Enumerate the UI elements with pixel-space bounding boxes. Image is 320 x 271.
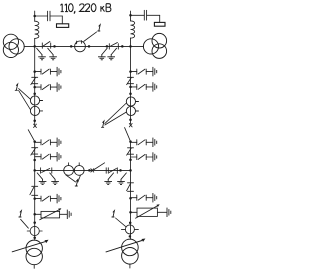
wire right vertical lower: [130, 141, 132, 239]
leader to label 1 (breaker): [84, 32, 97, 42]
three-winding transformer right (trefoil): [143, 33, 166, 58]
open point X right column: [129, 124, 132, 127]
earthing branch left column upper A: [35, 67, 61, 76]
coupling capacitor left: [35, 11, 63, 21]
disconnector right column lower: [127, 183, 134, 192]
label 1 breaker: [98, 25, 101, 31]
earthing branch right column lower: [131, 193, 157, 202]
leader to label 1 (left bottom): [21, 219, 29, 228]
circuit breaker Q1: [75, 41, 86, 52]
bridge bus wire: [24, 45, 143, 47]
disconnector right column upper: [127, 77, 134, 84]
earthing switch QS1 right knife: [48, 48, 57, 60]
current transformer left 2: [30, 106, 42, 115]
earthing branch right column upper A: [131, 67, 157, 76]
label 1 right CTs: [102, 121, 105, 127]
line filter right: [154, 15, 165, 26]
disconnector left column mid: [31, 148, 38, 155]
three-winding transformer left (trefoil): [3, 34, 24, 57]
earthing branch right column mid B: [131, 152, 157, 161]
current transformer tie 1: [64, 163, 74, 176]
earthing branch left column lower: [35, 194, 61, 203]
earthing branch right column upper B: [131, 82, 157, 91]
open disconnector blade on tie: [94, 163, 105, 170]
wire left vertical below trap: [34, 38, 36, 124]
open disconnector blade right column: [125, 128, 131, 142]
disconnector QS1 on bridge (left): [42, 42, 50, 49]
label 1 left bottom: [19, 211, 22, 217]
open disconnector blade left column: [28, 130, 35, 142]
disconnector on tie (left): [41, 168, 52, 173]
label 1 right bottom: [112, 211, 115, 217]
earthing branch left column upper B: [35, 82, 61, 91]
earthing branch left column mid A: [35, 138, 61, 147]
leaders to label 1 (left CTs): [19, 89, 31, 110]
surge arrester left: [35, 208, 71, 220]
leaders to label 1 (right CTs): [105, 103, 127, 125]
wire right transformer bottom stub: [129, 264, 131, 268]
earthing knife tie right B: [117, 173, 126, 185]
power transformer T2 right (two windings, OLTC arrow): [106, 239, 145, 265]
wire right vertical below trap: [130, 38, 132, 124]
leaders to label 1 (tie CTs): [66, 175, 81, 182]
disconnector on tie (right): [108, 168, 117, 173]
reactor (HF line trap) right: [131, 21, 135, 38]
disconnector left column upper: [31, 77, 38, 84]
disconnector QS2 on bridge (right): [109, 43, 118, 50]
tie (bypass) wire: [35, 169, 131, 171]
wire left vertical column x=34.7: [34, 11, 36, 21]
wire right vertical column x=130.5: [130, 11, 132, 21]
disconnector right column mid: [127, 148, 134, 155]
current transformer right 1: [126, 97, 138, 106]
reactor (HF line trap) left: [35, 21, 39, 38]
earthing switch QS1 left knife: [37, 48, 46, 60]
open point X left column: [34, 124, 37, 127]
leader to label 1 (right bottom): [116, 218, 127, 227]
surge arrester right: [131, 204, 171, 218]
power transformer T1 left (two windings, OLTC arrow): [12, 240, 48, 265]
current transformer right 2: [126, 106, 138, 115]
voltage transformer right bottom: [121, 225, 138, 234]
current transformer left 1: [30, 96, 42, 105]
open point X on tie: [91, 169, 94, 172]
title 110, 220 kV: [60, 4, 111, 14]
wire left transformer bottom stub: [33, 265, 35, 269]
earthing switch QS2 right knife: [107, 48, 116, 60]
current transformer tie 2: [74, 163, 84, 176]
earthing knife tie left B: [50, 173, 59, 185]
label 1 left CTs: [15, 84, 17, 90]
earthing branch right column mid A: [131, 138, 157, 147]
coupling capacitor right: [131, 10, 160, 20]
label 1 tie CTs: [75, 180, 78, 186]
line filter left: [57, 16, 69, 27]
voltage transformer left bottom: [27, 226, 42, 235]
earthing branch left column mid B: [35, 152, 61, 161]
earthing switch QS2 left knife: [98, 48, 107, 60]
wire left vertical lower: [34, 141, 36, 240]
disconnector left column lower: [30, 186, 38, 195]
earthing knife tie left A: [37, 173, 46, 185]
earthing knife tie right A: [104, 173, 113, 185]
tick on tie right of blade: [105, 168, 107, 173]
